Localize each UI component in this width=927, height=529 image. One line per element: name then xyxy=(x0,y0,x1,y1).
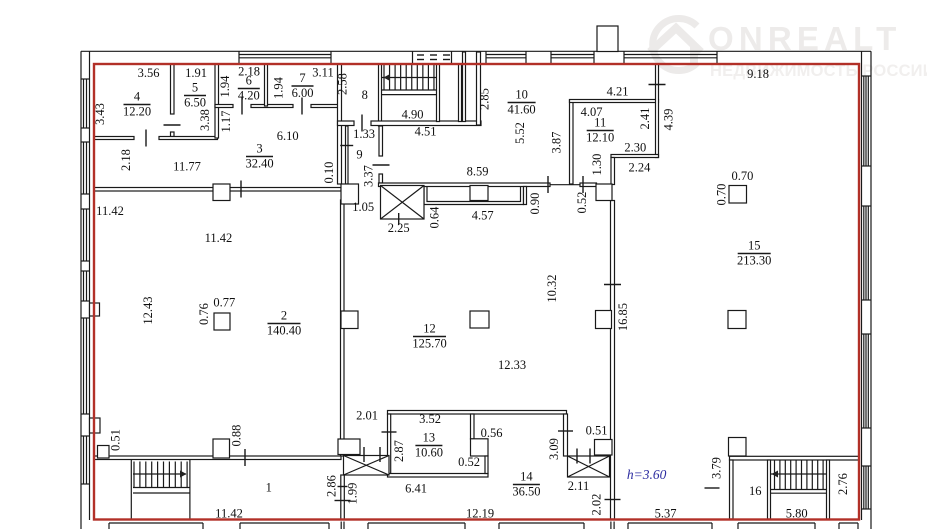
pillar wall12-15 bottom xyxy=(595,440,613,456)
door tick room7 xyxy=(301,98,303,115)
wall room12-room15 xyxy=(611,201,615,520)
svg-text:9.18: 9.18 xyxy=(747,67,769,81)
room11 west wall xyxy=(570,100,574,184)
niche wall right of shaft xyxy=(424,187,524,205)
svg-text:1.30: 1.30 xyxy=(590,154,604,176)
pillar below room11 xyxy=(596,184,612,201)
svg-text:3.79: 3.79 xyxy=(710,457,724,479)
door tick room12-15 xyxy=(604,284,621,286)
stair bottom wall b xyxy=(371,121,481,126)
door tick wall14 xyxy=(558,430,573,432)
svg-text:0.77: 0.77 xyxy=(213,296,235,310)
roof protrusion xyxy=(597,26,618,52)
vent shaft dashes xyxy=(412,51,414,63)
svg-text:3.43: 3.43 xyxy=(93,103,107,125)
room13 east box xyxy=(471,439,489,456)
pillar room15 mid xyxy=(728,311,746,329)
svg-text:11: 11 xyxy=(594,116,606,130)
pillar wall2-12 bottom xyxy=(338,439,360,455)
svg-text:2: 2 xyxy=(281,309,287,323)
svg-text:0.56: 0.56 xyxy=(481,426,503,440)
svg-text:12: 12 xyxy=(423,322,436,336)
door tick room8 xyxy=(361,115,363,132)
svg-text:11.42: 11.42 xyxy=(215,507,243,521)
room9 east wall a xyxy=(379,126,383,156)
door tick room13 xyxy=(382,431,397,433)
stairSE north wall xyxy=(730,456,860,460)
stairSE west wall xyxy=(730,460,734,519)
room9 west wall xyxy=(346,126,349,184)
corridor wall above room2 xyxy=(94,188,341,192)
svg-text:2.30: 2.30 xyxy=(624,141,646,155)
svg-text:4.90: 4.90 xyxy=(402,108,424,122)
svg-text:5.52: 5.52 xyxy=(513,122,527,144)
svg-text:0.70: 0.70 xyxy=(731,169,753,183)
svg-text:1.17: 1.17 xyxy=(219,111,233,133)
svg-text:2.01: 2.01 xyxy=(356,409,378,423)
room13 west wall xyxy=(388,414,391,474)
tick below shaft xbox xyxy=(398,213,400,225)
duct below hall wall xyxy=(470,186,488,201)
svg-text:140.40: 140.40 xyxy=(267,324,301,338)
svg-text:10.60: 10.60 xyxy=(415,446,443,460)
stairSE divider2 xyxy=(827,460,830,519)
red unit boundary xyxy=(94,64,859,520)
svg-text:6.50: 6.50 xyxy=(184,96,206,110)
svg-text:12.43: 12.43 xyxy=(141,296,155,324)
svg-text:1.94: 1.94 xyxy=(272,76,286,99)
svg-text:0.64: 0.64 xyxy=(428,206,442,229)
svg-text:12.20: 12.20 xyxy=(123,105,151,119)
svg-text:2.86: 2.86 xyxy=(325,475,339,497)
left wall pier box 2 xyxy=(90,418,101,433)
pilaster room1 mid xyxy=(213,439,230,458)
shaft xbox bottom-right xyxy=(568,456,610,477)
wall below red room12-15 xyxy=(610,522,612,529)
shaft wall a xyxy=(463,52,466,122)
door tick room1 xyxy=(244,449,246,466)
svg-text:32.40: 32.40 xyxy=(245,157,273,171)
svg-text:11.42: 11.42 xyxy=(96,204,124,218)
svg-text:16.85: 16.85 xyxy=(616,303,630,331)
svg-text:6: 6 xyxy=(246,74,252,88)
svg-text:2.76: 2.76 xyxy=(836,473,850,495)
wall room5-room6 xyxy=(215,64,219,138)
room11 north wall xyxy=(570,100,659,103)
shaft xbox top xyxy=(381,186,425,220)
pillar wall2-12 mid xyxy=(341,311,358,329)
pilaster stairSE xyxy=(729,438,747,457)
svg-text:6.10: 6.10 xyxy=(277,129,299,143)
svg-text:2.11: 2.11 xyxy=(568,479,589,493)
svg-text:41.60: 41.60 xyxy=(508,103,536,117)
pillar room2 xyxy=(214,313,230,330)
wall east of room11 xyxy=(656,64,659,158)
svg-text:0.70: 0.70 xyxy=(714,184,728,206)
hall south wall west part xyxy=(379,183,551,187)
svg-text:0.76: 0.76 xyxy=(197,303,211,325)
room13 east wall upper xyxy=(471,414,475,439)
room11 step wall vert xyxy=(611,158,615,185)
svg-text:12.10: 12.10 xyxy=(586,131,614,145)
door tick hall b xyxy=(582,176,584,193)
svg-text:4.51: 4.51 xyxy=(415,125,437,139)
wall room4-room5 stub xyxy=(171,132,175,137)
svg-text:1.91: 1.91 xyxy=(185,66,207,80)
wall room1-room14 xyxy=(341,475,345,520)
room13 south wall xyxy=(388,474,489,478)
door tick room4 xyxy=(145,130,147,147)
svg-text:5.80: 5.80 xyxy=(786,507,808,521)
wall rooms6-7 bottom c xyxy=(311,105,339,108)
door tick room11 xyxy=(649,84,666,86)
stair bottom wall a xyxy=(338,121,355,126)
room9 east wall b xyxy=(379,174,383,183)
svg-text:4: 4 xyxy=(134,90,141,104)
staircase top (treads, arrow, landing) xyxy=(383,65,385,90)
door tick room1-14 b xyxy=(335,500,351,502)
hall south wall door line xyxy=(550,184,580,186)
door tick room12-15 low xyxy=(605,499,621,501)
svg-text:3.56: 3.56 xyxy=(138,66,160,80)
wall room7-room8 xyxy=(338,64,342,184)
staircase bottom-right (treads, arrow, landing) xyxy=(774,461,776,490)
pillar room15 top xyxy=(729,186,747,204)
pilaster room1 west xyxy=(98,446,110,459)
bottom wall room2 xyxy=(94,456,341,460)
svg-text:2.02: 2.02 xyxy=(589,494,603,516)
ticks on xbox bottom-right xyxy=(576,449,578,464)
door tick room9 xyxy=(373,164,390,166)
svg-text:11.42: 11.42 xyxy=(205,231,233,245)
door tick room6 xyxy=(241,98,243,115)
staircase bottom-left (treads, arrow, landing) xyxy=(130,460,132,521)
tick room9 west xyxy=(340,145,353,147)
svg-text:2.24: 2.24 xyxy=(628,161,651,175)
shaft xbox bottom-left xyxy=(344,456,390,476)
svg-text:3.52: 3.52 xyxy=(419,412,441,426)
svg-text:6.41: 6.41 xyxy=(405,482,427,496)
svg-text:10: 10 xyxy=(515,88,528,102)
svg-text:0.52: 0.52 xyxy=(575,192,589,214)
shaft wall b xyxy=(477,52,481,125)
svg-text:3.09: 3.09 xyxy=(547,438,561,460)
door tick stairSE xyxy=(705,487,720,489)
svg-text:0.51: 0.51 xyxy=(109,429,123,451)
svg-text:2.85: 2.85 xyxy=(478,88,492,110)
right facade windows xyxy=(863,76,865,166)
pillar corridor east xyxy=(341,184,359,204)
svg-text:0.51: 0.51 xyxy=(586,424,608,438)
stair west wall xyxy=(379,64,382,126)
svg-text:h=3.60: h=3.60 xyxy=(627,467,667,482)
wall rooms4-5 bottom left xyxy=(94,137,134,140)
pillar corridor west xyxy=(213,184,230,201)
svg-text:9: 9 xyxy=(356,148,362,162)
niche east wall xyxy=(524,187,527,205)
svg-text:0.10: 0.10 xyxy=(322,162,336,184)
svg-text:11.77: 11.77 xyxy=(173,160,201,174)
svg-text:5.37: 5.37 xyxy=(655,507,677,521)
svg-text:7: 7 xyxy=(299,71,305,85)
wall rooms6-7 bottom a xyxy=(215,105,233,108)
stair east wall xyxy=(459,64,462,122)
room11 step wall xyxy=(611,155,659,158)
stairSE divider1 xyxy=(768,460,771,519)
left wall pier box 1 xyxy=(90,303,100,316)
svg-text:6.00: 6.00 xyxy=(292,86,314,100)
svg-text:2.25: 2.25 xyxy=(388,221,410,235)
wall room2-room12 xyxy=(341,200,345,456)
room13 north wall xyxy=(388,411,567,415)
svg-text:4.57: 4.57 xyxy=(472,209,494,223)
svg-text:12.19: 12.19 xyxy=(466,507,494,521)
watermark onrealt xyxy=(653,19,697,71)
svg-text:12.33: 12.33 xyxy=(498,358,526,372)
svg-text:36.50: 36.50 xyxy=(512,485,540,499)
top facade windows xyxy=(239,54,331,56)
svg-text:2.58: 2.58 xyxy=(336,73,350,95)
svg-text:10.32: 10.32 xyxy=(545,274,559,302)
svg-text:1.94: 1.94 xyxy=(218,75,232,98)
door tick corridor xyxy=(240,181,242,198)
ticks on xbox bottom-left xyxy=(363,447,365,462)
svg-text:14: 14 xyxy=(520,470,533,484)
svg-text:125.70: 125.70 xyxy=(412,337,446,351)
svg-text:3: 3 xyxy=(256,142,262,156)
door tick room5 xyxy=(164,124,181,126)
svg-text:0.90: 0.90 xyxy=(528,193,542,215)
svg-text:1.99: 1.99 xyxy=(346,483,360,505)
svg-text:15: 15 xyxy=(748,239,761,253)
svg-text:13: 13 xyxy=(423,431,436,445)
wall south of room12 east xyxy=(564,414,568,456)
door tick room1-14 a xyxy=(338,486,348,488)
svg-text:1: 1 xyxy=(266,481,272,495)
wall room4-room5 xyxy=(171,64,175,114)
door tick hall a xyxy=(547,176,549,193)
svg-text:3.87: 3.87 xyxy=(549,132,563,154)
left facade windows xyxy=(83,79,85,128)
svg-text:2.18: 2.18 xyxy=(119,149,133,171)
svg-text:5: 5 xyxy=(192,81,198,95)
svg-text:3.37: 3.37 xyxy=(361,165,375,187)
room13 east wall lower xyxy=(485,456,488,474)
stair mid wall xyxy=(437,64,440,122)
pillar room12 xyxy=(470,311,489,328)
svg-text:8: 8 xyxy=(362,88,368,102)
svg-text:0.52: 0.52 xyxy=(458,455,480,469)
wall below red room1-14 xyxy=(340,522,342,529)
svg-text:3.11: 3.11 xyxy=(312,66,333,80)
svg-text:16: 16 xyxy=(749,484,762,498)
hall south wall east part xyxy=(580,183,597,187)
svg-text:4.21: 4.21 xyxy=(607,85,629,99)
svg-text:2.41: 2.41 xyxy=(638,108,652,130)
svg-text:1.33: 1.33 xyxy=(353,127,375,141)
svg-text:213.30: 213.30 xyxy=(737,254,771,268)
wall rooms4-5 bottom right xyxy=(159,137,218,140)
svg-text:0.88: 0.88 xyxy=(230,425,244,447)
wall rooms6-7 bottom b xyxy=(251,105,293,108)
svg-text:1.05: 1.05 xyxy=(352,200,374,214)
pillar wall12-15 mid xyxy=(596,311,612,329)
bottom facade boxes xyxy=(109,522,203,524)
svg-text:4.20: 4.20 xyxy=(238,89,260,103)
wall room6-room7 xyxy=(265,64,268,106)
svg-text:3.38: 3.38 xyxy=(198,109,212,131)
outer wall lines xyxy=(81,50,871,52)
svg-text:2.87: 2.87 xyxy=(392,440,406,462)
svg-text:4.39: 4.39 xyxy=(661,109,675,131)
svg-text:8.59: 8.59 xyxy=(467,165,489,179)
